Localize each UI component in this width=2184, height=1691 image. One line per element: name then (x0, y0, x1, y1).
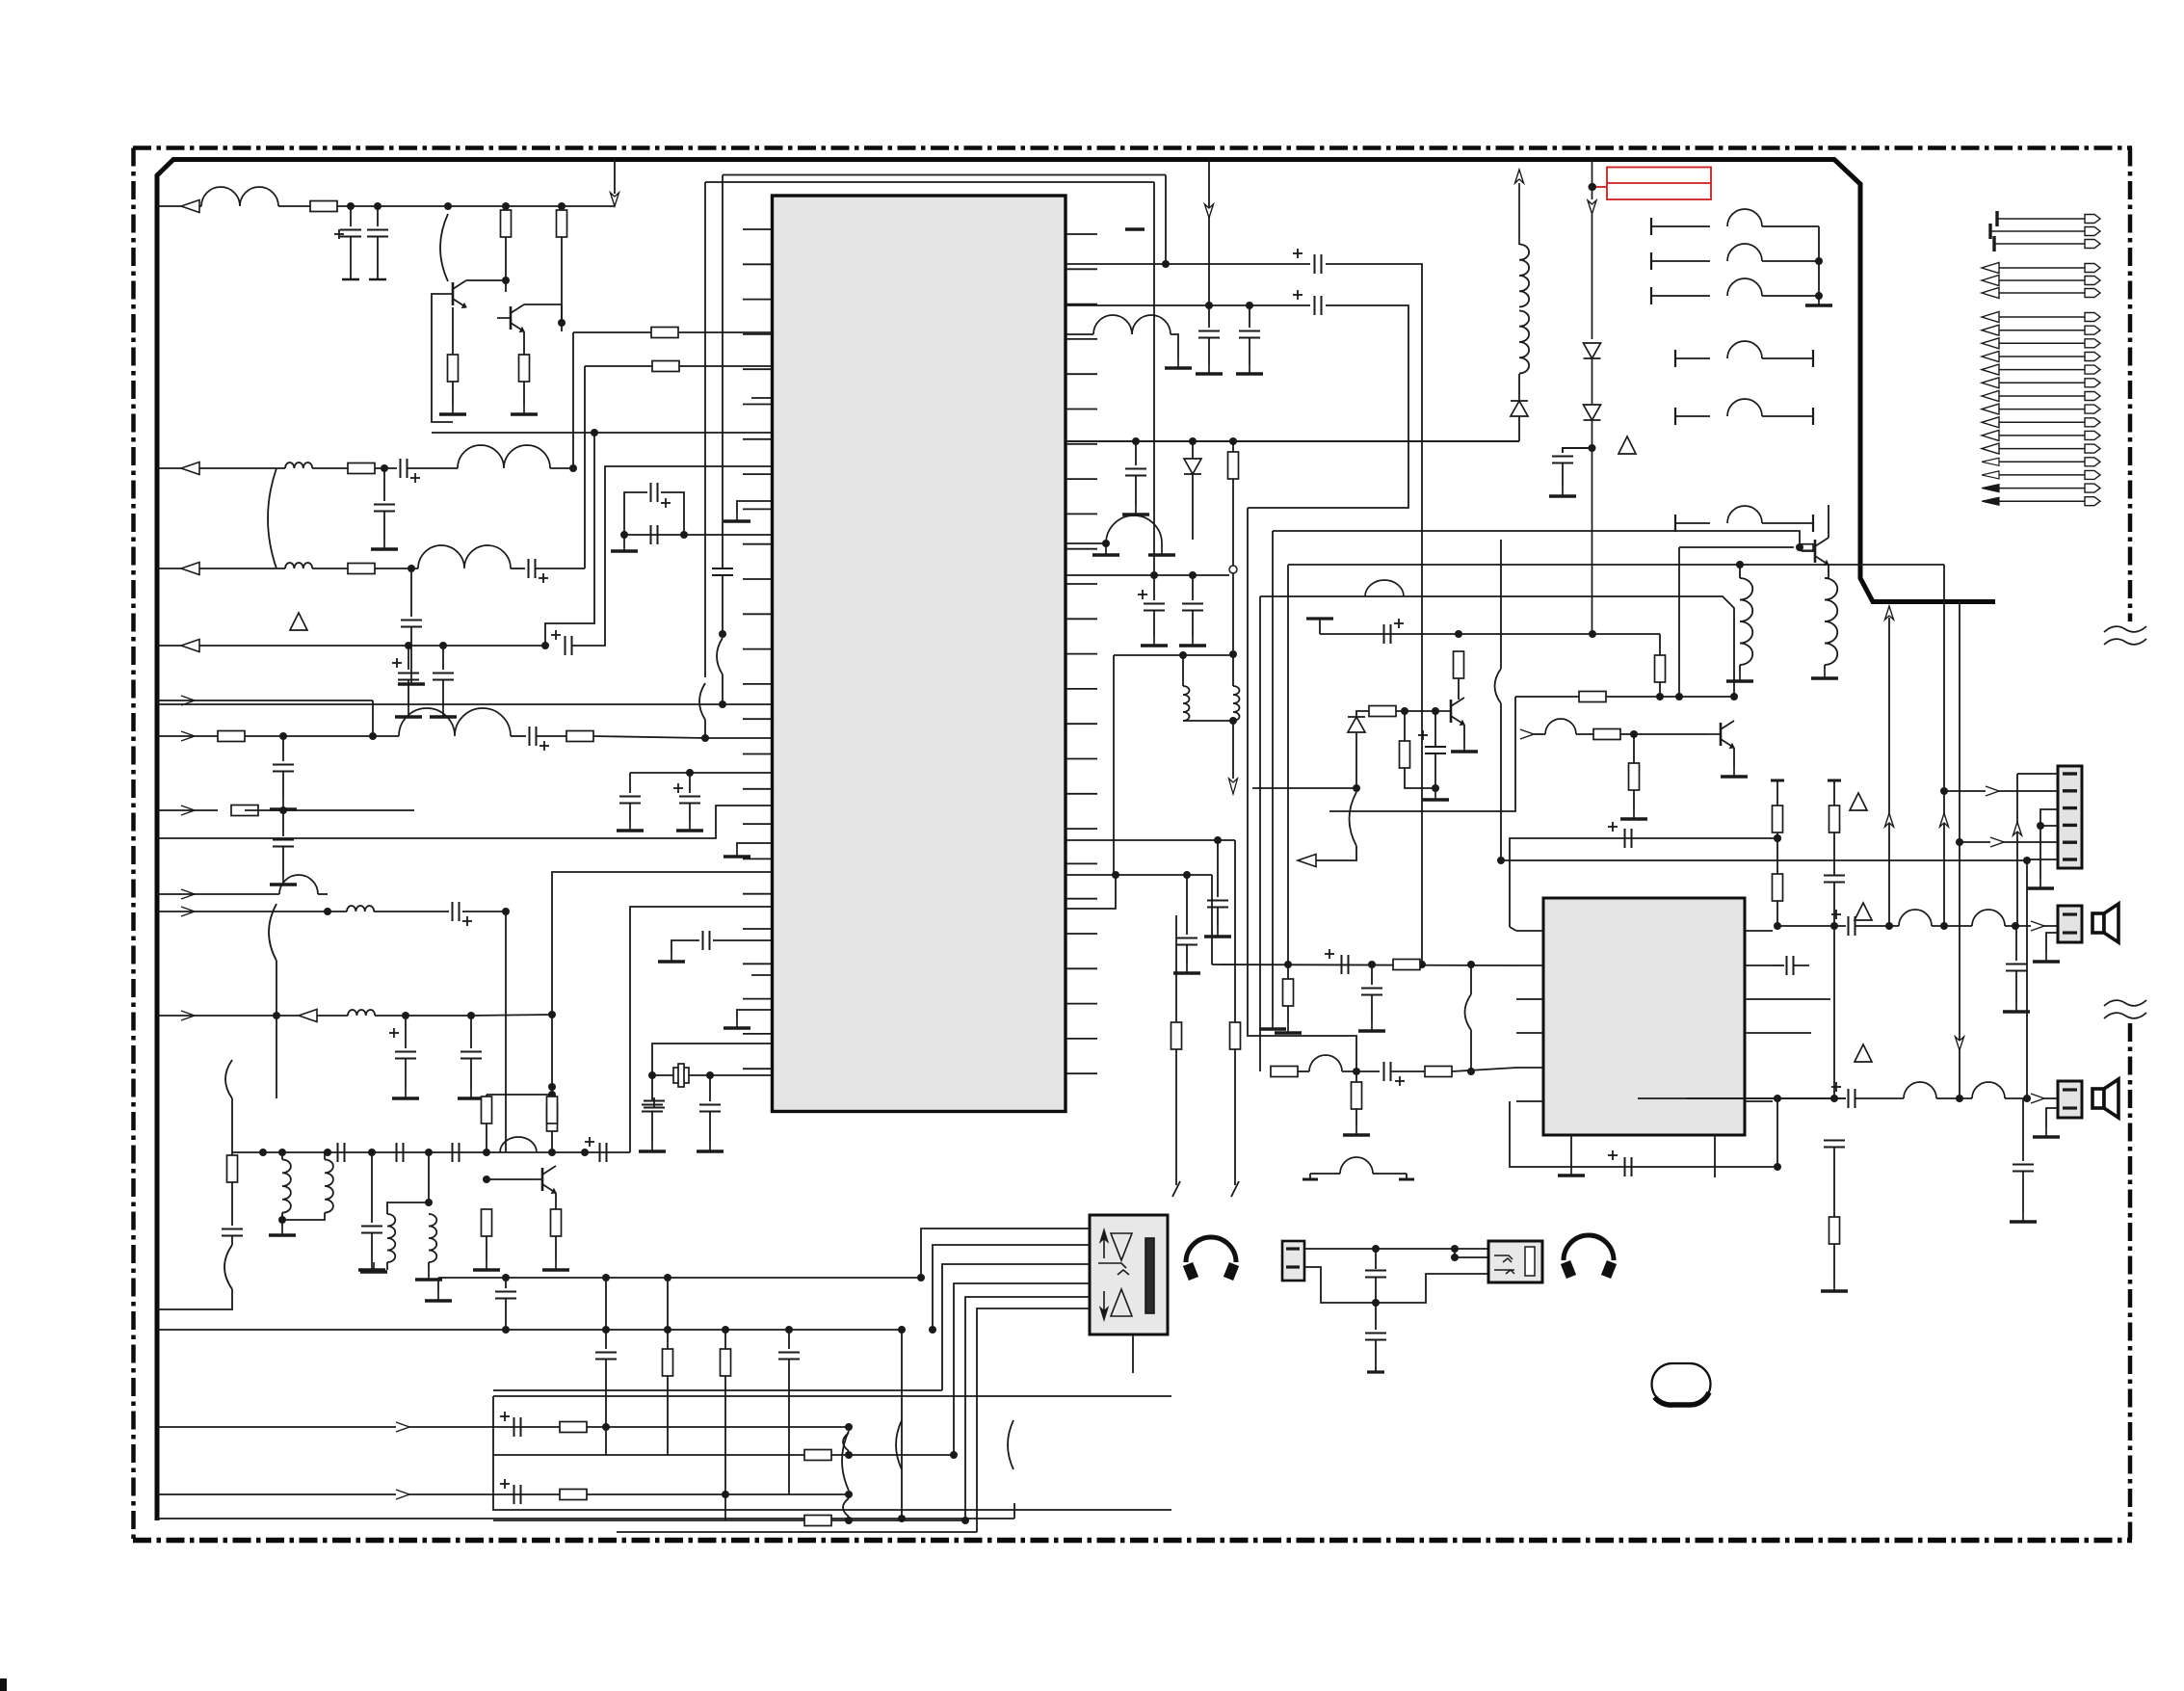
resistor R208 (1829, 1217, 1840, 1244)
box outline around arrow rows (493, 1395, 1171, 1397)
cap to ground at 1264 (1217, 840, 1219, 897)
jog to pin y943 (1066, 875, 1116, 909)
vertical choke column x1577 (1515, 170, 1524, 183)
resistor R150 column (231, 1152, 233, 1155)
row R feed from below (1686, 1097, 1846, 1099)
vertical x936 (901, 1330, 903, 1519)
pin row y413 stub (751, 397, 772, 399)
ecap at 1198 (1153, 575, 1155, 600)
cap below 1054 (470, 1016, 472, 1048)
ecap pair below row670 (392, 662, 402, 664)
IC U101 right pins (1066, 234, 1097, 1073)
ecap on row1196 (599, 1143, 601, 1162)
col1904 lower section (1833, 926, 1835, 1098)
down arrow open (1232, 721, 1234, 779)
capacitor C402 (1375, 1303, 1377, 1330)
link x287 (276, 961, 277, 1016)
pin stub y1012 (751, 974, 772, 976)
cap below row486 (383, 468, 385, 501)
ladder col 753 (724, 1330, 726, 1349)
inductor L203 (1904, 1082, 1936, 1098)
left hug vertical x732 (704, 182, 706, 677)
arcs between ladder rows (843, 1433, 849, 1451)
IC right row y458 to choke (1066, 440, 1519, 442)
feed from top border x638 (614, 159, 616, 194)
wire to CN3 pin6 (2027, 859, 2058, 1098)
bottom bus y1576 (157, 1518, 1014, 1519)
wire y893 to CN3 pin6 zone (1501, 859, 2027, 861)
page edge artifact (0, 1678, 7, 1691)
ladder row y1578 (493, 1519, 965, 1521)
warning triangle near diode (1618, 436, 1636, 454)
right leg x1210 to row274 (1165, 175, 1167, 265)
ground stub CN1 (2046, 933, 2058, 952)
x1527 link (1470, 964, 1472, 994)
wire from choke bottom to IC row (1066, 440, 1519, 442)
resistor R161 (560, 1490, 587, 1500)
wire rail C down to row R (1959, 842, 1960, 1098)
IC2 pin rows right extensions (1773, 998, 1830, 1000)
resistor R313 below base (1633, 734, 1635, 763)
Q2a emitter choke (1825, 565, 1829, 578)
Q2b emitter ground (1733, 748, 1735, 767)
hump inductor y1188 (500, 1137, 537, 1152)
caps at rows 317 (1208, 305, 1210, 328)
row y214 tuner input (181, 200, 199, 213)
row y1296 to jack2 (1304, 1248, 1488, 1250)
row y841 (181, 806, 195, 815)
crystal load caps (651, 1075, 653, 1101)
right leg x1198 to row597 (1153, 182, 1155, 575)
resistor R104 (561, 206, 563, 210)
Q4 emitter ground (1463, 725, 1465, 742)
arrow row y1481 (157, 1426, 849, 1428)
ecap C181 (1383, 1062, 1385, 1081)
capacitor C203 (1824, 875, 1845, 877)
IC2 bottom loop y1211 (1510, 1101, 1777, 1167)
emitter resistors to ground (486, 1152, 487, 1209)
cap to ground below row R (2022, 1098, 2024, 1161)
row y762 base drive Q2b (1520, 729, 1534, 739)
cap below row764 (282, 736, 284, 761)
vertical x1743 from jumper zone (1678, 547, 1680, 697)
electrolytic C310 (1383, 624, 1385, 644)
cap below row590 (408, 565, 415, 572)
step at 1510 (1454, 1249, 1456, 1257)
cap to ground at 1232 (1186, 875, 1188, 935)
row y908 from IC1 (1066, 874, 1212, 876)
IC U201 left pins (1516, 931, 1543, 1101)
ecap C180 (1325, 953, 1334, 955)
emitter resistors (452, 307, 454, 355)
resistor R310 (1655, 655, 1666, 682)
corner into row1001 (1211, 875, 1213, 964)
connector CN3 6-pin (2058, 766, 2082, 868)
IC2 left pin1 feed corner (1501, 930, 1516, 932)
loop row y680 (1114, 654, 1233, 656)
red revision callout box (1592, 168, 1711, 200)
Q1b base tie (524, 304, 562, 305)
row y1054 (181, 1011, 195, 1020)
transformer T2 (387, 1214, 395, 1262)
transistor Q6 (541, 1168, 544, 1191)
transistor Q2b (1720, 723, 1723, 746)
wire loop over IC1 inner (705, 181, 1154, 183)
base feed loop (414, 294, 439, 347)
x1337 lower: res + gnd (1287, 964, 1289, 979)
jumper J2 (1674, 350, 1676, 367)
wire into IC2 pin1 (1510, 927, 1516, 931)
resistor column x1280 (1232, 441, 1234, 452)
row y590 (181, 563, 199, 575)
line jumpers group (3 linked) (1650, 218, 1652, 235)
row y836-870 jog (157, 806, 772, 838)
cap+gnd at 1424 (1371, 964, 1373, 985)
row y928 (181, 889, 195, 899)
wire to CN3 pin1 (2017, 773, 2058, 775)
ecap right on row1196 (617, 1151, 630, 1153)
feed from above x241 (231, 1098, 233, 1152)
arrow group A (3, with T-bars) (1999, 218, 2085, 220)
wire from top border down (supply feed) (1592, 159, 1593, 187)
resistor R202 (1773, 874, 1783, 901)
speaker SP2 (2092, 1079, 2118, 1118)
IC2 right pin2 cap (1773, 964, 1784, 966)
arrow group B (3, hollow triangles) (1999, 267, 2085, 269)
ground IC U201 bottom (1570, 1166, 1572, 1176)
row y723 (1515, 696, 1734, 698)
decoupling cap at supply (1563, 448, 1592, 453)
jumper row y1218 (1309, 1174, 1311, 1179)
electrolytic C206 (1831, 1086, 1841, 1088)
arrow up inside J1 (1100, 1229, 1108, 1242)
IC U201 audio amplifier (1543, 898, 1745, 1135)
cap to ground below row L (2015, 926, 2017, 961)
transistor cluster right Q5 Q6 (487, 1094, 552, 1096)
row y1001 to IC2 (1212, 964, 1516, 965)
speaker feed row L from IC2 pin (1777, 925, 1846, 927)
wire y586 to rail B (1288, 564, 1944, 566)
feed from border x1255 (1208, 159, 1210, 305)
resistor R180 (1393, 960, 1420, 970)
transistor Q1b (510, 306, 513, 330)
curve link 486-590 (268, 468, 276, 568)
diode D4 (1192, 441, 1194, 459)
warning triangle left (290, 613, 307, 630)
crystal X1 (673, 1068, 689, 1083)
supply tap T-bar x1845 (1771, 779, 1784, 782)
page-break squiggle lower right (2104, 1000, 2146, 1006)
inductor L202 (1972, 910, 2005, 926)
ecap C101 (334, 233, 344, 235)
inductor row y347 (1066, 333, 1093, 335)
NC tick pin row 238 (1125, 227, 1145, 231)
speaker connector CN2 (2058, 1081, 2082, 1118)
vertical x1573 segment (1329, 697, 1515, 811)
choke to ground x1806 (1739, 565, 1741, 578)
headphone icon right (1564, 1235, 1614, 1277)
vertical x750 outer leg (722, 175, 724, 568)
wire to CN3 pin5 with arrow (1960, 841, 2058, 843)
transistor Q4 (1450, 700, 1453, 723)
IC U201 bottom pins (1571, 1135, 1715, 1177)
warning triangle A (1850, 793, 1867, 810)
cap row y976 (713, 939, 772, 941)
supply tap T-bar x1904 (1828, 779, 1841, 782)
top cap to ground x679 (653, 1097, 655, 1108)
pin row ground y875 (737, 843, 772, 847)
row y727 (181, 696, 195, 705)
caps series on row1196 (337, 1143, 339, 1162)
cap below dot386 (371, 1152, 373, 1223)
junction dots on supply column (1589, 444, 1596, 452)
junction dot at red callout (1589, 183, 1596, 191)
row y449 to IC1 (432, 432, 772, 434)
wire y619 collector feed Q2b (1260, 596, 1734, 697)
IC U101 main processor (773, 196, 1066, 1112)
row y486 (181, 462, 199, 475)
inductor L201 (1899, 910, 1932, 926)
electrolytic row y274 (1066, 263, 1310, 265)
pin row y520 ground stub (737, 501, 772, 512)
bus row y1380 (157, 1329, 902, 1331)
thick board outline (157, 160, 1995, 1521)
row y764 (181, 731, 195, 741)
long tail x1282 (1234, 840, 1236, 1022)
IC U101 left pins (743, 229, 772, 1069)
warning triangle B (1855, 903, 1872, 920)
arrow row y1551 (157, 1493, 849, 1495)
resistor R312 (1404, 711, 1406, 741)
inductor L204 (1972, 1082, 2005, 1098)
collector resistors (486, 1095, 487, 1097)
transformer coils pair (1183, 686, 1190, 721)
electrolytic C211 (1608, 1154, 1618, 1156)
resistor R181 (1425, 1067, 1452, 1077)
wire loop over IC1 outer (723, 174, 1166, 176)
stamp pill (1652, 1363, 1711, 1405)
vertical x1558 with arc jogs (1500, 540, 1502, 669)
headphone jack J2 (1488, 1241, 1542, 1282)
ladder row y1510 (493, 1454, 954, 1456)
ground R208 (1833, 1281, 1835, 1291)
ecap below 1054 (389, 1032, 399, 1034)
headphone jack J1 lower right wire (1132, 1334, 1134, 1373)
transistor pair Q1a (440, 214, 448, 281)
Q2a collector (1828, 505, 1829, 538)
diode D1 (1584, 343, 1601, 358)
wire y551 to Q2a base riser (1273, 531, 1800, 547)
arc link 1481-1551 (842, 1431, 849, 1491)
capacitor C208 (1824, 1140, 1845, 1142)
headphone jack J1 (1090, 1215, 1168, 1334)
res to gnd below row1112 (1355, 1071, 1357, 1082)
speaker connector CN1 (2058, 906, 2082, 942)
staircase wires into J1 (921, 1229, 1090, 1278)
diode D2 (1584, 405, 1601, 420)
row y597 (1066, 574, 1229, 576)
electrolytic C205 (1831, 913, 1841, 915)
capacitor C401 (1375, 1249, 1377, 1269)
supply row y658 (1320, 633, 1660, 635)
ecap C160 (500, 1415, 510, 1417)
IC U201 right pins (1745, 931, 1773, 1101)
cap C102 (377, 206, 379, 226)
Q4 base network (1396, 710, 1437, 712)
link rows 946 down (505, 912, 507, 1152)
hump on L1 (1365, 580, 1404, 596)
row y1590 (617, 1531, 977, 1533)
cap at 525 y1344 (505, 1278, 507, 1288)
vertical rail A with up arrow (1885, 606, 1894, 620)
arc jog below D5 (1350, 792, 1357, 846)
row y564 hump to ground (1066, 542, 1106, 544)
row y1112 to IC2 (1260, 1070, 1272, 1072)
long tail x1221 (1175, 915, 1177, 1022)
row y872 from IC1 (1066, 839, 1235, 841)
headphone icon left (1186, 1237, 1236, 1279)
diode D3 upward (1511, 401, 1528, 416)
ladder components below (595, 1352, 617, 1354)
long vertical x287 to transformer cluster (276, 1016, 277, 1098)
diode D5 column (1356, 711, 1369, 716)
ground cap cluster y1326 (438, 1277, 921, 1279)
main row y1196 (232, 1151, 630, 1153)
cap at 1179 (1135, 441, 1137, 465)
resistor R203 (1829, 806, 1840, 832)
electrolytic row y317 (1066, 304, 1310, 306)
ladder verticals from row1326 (605, 1278, 607, 1349)
page-break squiggle upper right (2104, 626, 2146, 632)
rows 905 941 ladder x573 x654 (552, 872, 772, 1152)
vertical rail B (1943, 565, 1945, 926)
corner to R310 (1659, 634, 1661, 655)
inverted ground tap (1319, 619, 1321, 634)
transistor Q2a (1679, 546, 1794, 548)
crystal X1 rows (652, 1044, 772, 1075)
electrolytic C210 (1608, 826, 1618, 828)
row y802 loop (630, 772, 772, 774)
transformer T1 (282, 1159, 291, 1212)
right vertical x1053 of bottom bus (1013, 1503, 1015, 1519)
resistor R140 (551, 1087, 553, 1104)
ladder row y1443 (493, 1389, 942, 1391)
wire to CN3 pin4 to ground (2037, 822, 2044, 830)
vertical rail C with down arrow (1959, 601, 1960, 842)
warning triangle C (1855, 1044, 1872, 1062)
col1845 upper links (1776, 832, 1778, 874)
arrow group C (15) (1999, 316, 2085, 318)
resistor R160 (560, 1422, 587, 1433)
cap at 1238 (1192, 575, 1194, 600)
ladder col 819 (788, 1330, 790, 1349)
resistor R103 (505, 206, 507, 210)
capacitor C311 electrolytic (1418, 734, 1428, 736)
resistor R201 (1773, 806, 1783, 832)
feedback loop top wire y870 (1510, 838, 1777, 927)
CN4 pin2 loop (1304, 1267, 1376, 1303)
speaker feed row R (1638, 1097, 1846, 1099)
pin row y555 RC pair (624, 534, 772, 536)
wire to CN3 pin3 (2040, 809, 2058, 826)
Q1a collector net (466, 279, 506, 281)
left leg x1156 (1113, 655, 1115, 875)
pin gnd y1048 (737, 1010, 772, 1018)
wire to CN3 pin2 with arrow (1944, 790, 2058, 792)
speaker SP1 (2092, 904, 2118, 942)
long verticals right of IC1 (1248, 508, 1356, 1071)
row y670 (181, 640, 199, 652)
col1845 to IC2 right pin (1776, 901, 1778, 926)
row y946 (181, 907, 195, 916)
row y731 bus (157, 703, 772, 705)
ground stub CN2 (2046, 1108, 2058, 1127)
frame: outer chain border (133, 145, 2132, 150)
resistor R311 (1454, 651, 1464, 678)
ecap C161 (500, 1483, 510, 1485)
connector CN4 2-pin (1282, 1241, 1304, 1281)
wire y818 to left (1252, 787, 1356, 789)
vertical feeds x595 x607 (572, 332, 574, 468)
